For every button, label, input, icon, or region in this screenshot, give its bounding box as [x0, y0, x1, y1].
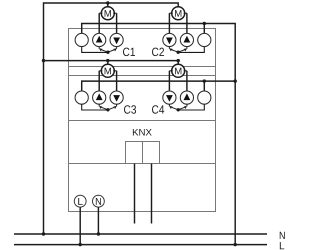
node: C2 changeover vertex: [176, 51, 179, 54]
wire: N terminal down to N mains line: [97, 207, 99, 234]
label C3: [124, 105, 136, 114]
wire L: tap to C4 common: [203, 81, 205, 91]
switch: C2 changeover contact: [169, 47, 187, 53]
label KNX: [133, 129, 152, 136]
terminal: C1 up (raise): [93, 33, 106, 46]
terminal: C1 down (lower): [110, 33, 123, 46]
node: C4 changeover vertex: [176, 108, 179, 111]
wire: motor C3 to up terminal: [98, 71, 100, 91]
wire N: mid bus to motors C3 C4: [44, 60, 179, 62]
terminal: C2 common: [198, 33, 211, 46]
switch: C3 changeover contact: [99, 104, 116, 110]
wire L: C1 common up to bus, across and down right riser: [82, 24, 236, 245]
wire: motor C2 to down terminal: [168, 13, 170, 33]
switch: C1 changeover contact: [99, 47, 116, 53]
node: left riser / mid bus junction: [42, 59, 45, 62]
motor M of channel C3: [99, 64, 116, 77]
wire: C3 common to changeover vertex: [82, 104, 108, 110]
device enclosure outline: [69, 29, 216, 212]
wire: L terminal down to L mains line: [79, 207, 81, 245]
motor M of channel C2: [169, 7, 187, 20]
terminal: C1 common: [75, 33, 88, 46]
wire: KNX bus conductor +: [134, 164, 136, 224]
terminal: C2 up (raise): [180, 33, 193, 46]
wire N: tap to motor C3: [107, 61, 109, 65]
terminal: C4 up (raise): [180, 91, 193, 104]
wire: motor C1 to up terminal: [98, 13, 100, 33]
node: mid bus / motor C4 junction: [177, 59, 180, 62]
label L (mains): [280, 242, 284, 249]
node: C1 changeover vertex: [106, 51, 109, 54]
terminal: C3 down (lower): [110, 91, 123, 104]
section divider above C3/C4 row: [69, 75, 216, 77]
label C4: [152, 105, 164, 114]
wire: KNX bus conductor -: [151, 164, 153, 224]
wire: N mains line: [14, 233, 267, 235]
section divider below C3/C4 row: [69, 120, 216, 122]
node: row2 L bus / C4 common junction: [203, 79, 206, 82]
label C1: [123, 48, 135, 57]
terminal: C4 down (lower): [163, 91, 176, 104]
wire L: row2 bus from C3 common to right riser: [82, 81, 236, 91]
node: L bus / C2 common junction: [203, 22, 206, 25]
wire: motor C2 to up terminal: [186, 13, 188, 33]
terminal: C3 up (raise): [93, 91, 106, 104]
node: L line / L terminal junction: [79, 243, 82, 246]
wire: motor C1 to down terminal: [116, 13, 118, 33]
wire L: tap to C2 common: [203, 24, 205, 34]
wire N: tap to motor C1: [107, 3, 109, 7]
node: row2 L bus / right riser junction: [234, 79, 237, 82]
node: mid bus / motor C3 junction: [106, 59, 109, 62]
terminal: C3 common: [75, 91, 88, 104]
wire: motor C3 to down terminal: [116, 71, 118, 91]
wire N: left riser, top bus to motor C2: [44, 3, 179, 234]
terminal: C2 down (lower): [163, 33, 176, 46]
wire: C2 common to changeover vertex: [178, 47, 204, 53]
terminal: C4 common: [198, 91, 211, 104]
terminal N (mains input): [93, 195, 105, 207]
motor M of channel C4: [169, 64, 187, 77]
terminal L (mains input): [74, 195, 86, 207]
KNX bus terminal block: [126, 142, 160, 164]
motor M of channel C1: [99, 7, 116, 20]
node: L line / right riser junction: [234, 243, 237, 246]
wire: C4 common to changeover vertex: [178, 104, 204, 110]
label N (mains): [280, 232, 285, 239]
node: top bus / motor C1 junction: [106, 1, 109, 4]
node: N line / left riser junction: [42, 232, 45, 235]
label C2: [152, 48, 164, 57]
section divider below C1/C2 row: [69, 66, 216, 68]
wire: C1 common to changeover vertex: [82, 47, 108, 53]
switch: C4 changeover contact: [169, 104, 187, 110]
wire: motor C4 to up terminal: [186, 71, 188, 91]
node: C3 changeover vertex: [106, 108, 109, 111]
wire: L mains line: [14, 244, 267, 246]
section divider below KNX section: [69, 163, 216, 165]
wire: motor C4 to down terminal: [168, 71, 170, 91]
node: N line / N terminal junction: [97, 232, 100, 235]
wire N: tap to motor C4: [177, 61, 179, 65]
